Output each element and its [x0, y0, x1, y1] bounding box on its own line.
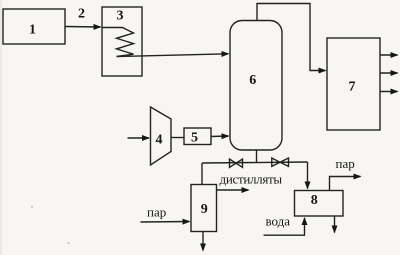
svg-text:1: 1 [29, 23, 36, 38]
svg-text:дистилляты: дистилляты [220, 172, 283, 187]
svg-text:9: 9 [201, 202, 208, 217]
svg-text:2: 2 [78, 7, 85, 22]
svg-text:4: 4 [156, 133, 163, 148]
svg-text:пар: пар [147, 205, 166, 220]
svg-text:3: 3 [117, 9, 124, 24]
svg-text:8: 8 [311, 193, 318, 208]
svg-text:7: 7 [349, 80, 356, 95]
svg-text:пар: пар [336, 156, 355, 171]
svg-text:5: 5 [191, 131, 198, 146]
svg-text:вода: вода [266, 214, 291, 229]
svg-text:6: 6 [249, 73, 256, 88]
